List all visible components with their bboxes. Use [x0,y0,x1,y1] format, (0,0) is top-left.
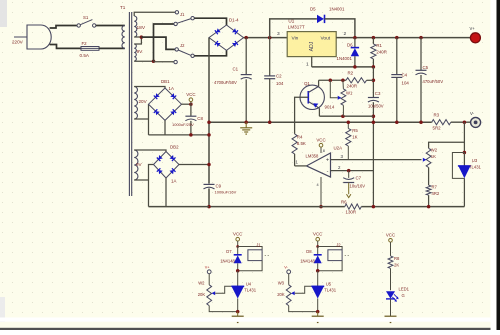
svg-text:1A: 1A [169,86,174,91]
wire S1 to T1 primary [96,25,125,27]
svg-text:104: 104 [276,81,284,86]
bridge D1-4 diode T-L [216,28,220,32]
emitter rail A [319,115,373,117]
wire D5 to Vout rail [325,19,355,38]
svg-text:1N4148: 1N4148 [300,259,315,264]
junction DB1 rail to vertical [207,133,211,137]
potentiometer W3 20K [288,274,290,285]
svg-text:R3: R3 [434,113,440,118]
screen edge bottom-left [0,297,5,322]
wire J1 common to bridge top [194,18,226,25]
power VCC LED circuit [389,239,393,243]
svg-text:W2: W2 [431,148,438,153]
svg-text:1N4148: 1N4148 [220,259,235,264]
svg-text:V-: V- [470,111,475,116]
wire 20V top to DB1 [134,87,165,89]
bridge D1-4 outline [209,25,244,50]
svg-text:VCC: VCC [186,92,195,97]
junction pin4 [319,205,323,209]
collector rail [319,79,346,81]
capacitor C1 [245,38,247,75]
svg-text:9V: 9V [136,162,143,167]
ground rail [209,121,432,123]
svg-text:Vout: Vout [321,36,331,42]
power VCC main [190,102,192,105]
svg-text:C3: C3 [375,91,381,96]
resistor R5 1K [347,122,349,128]
junction C1 bottom [244,120,248,124]
wire ADJ column down [372,67,374,97]
ADJ rail [312,66,374,68]
junction R2 right [372,79,376,83]
junction gnd rail left [207,120,211,124]
pin 1 output wire [295,165,307,167]
svg-text:LM317T: LM317T [288,24,305,29]
diode D8 1N4148 [317,247,319,255]
svg-text:F2: F2 [82,41,88,46]
svg-text:J1: J1 [256,243,261,248]
wire Q1 base left [295,97,309,134]
wire DB1 left corner down [148,104,150,135]
svg-text:R1: R1 [376,43,382,48]
wire W3 wiper to U5 ref [295,286,312,293]
svg-text:470uF/50V: 470uF/50V [423,79,444,84]
svg-text:VCC: VCC [233,232,242,237]
svg-text:4: 4 [317,183,319,187]
svg-text:Vin: Vin [292,36,299,42]
DB1 minus rail [149,134,210,136]
junction C7 top [347,169,351,173]
svg-text:1000uF/25V: 1000uF/25V [172,122,194,127]
potentiometer W1 [342,80,345,89]
svg-text:C1: C1 [233,67,239,72]
junction ground J2 circuit [316,310,320,314]
svg-text:20V: 20V [139,99,148,104]
power VCC opamp [319,143,323,147]
resistor R2 240R [346,78,367,83]
T1 primary winding [122,26,125,49]
junction D6 top [353,36,357,40]
wire 9V bottom up to J1 throw [154,24,174,61]
pin 1 wire [311,57,313,67]
wire DB1 bottom corner down [164,120,166,134]
svg-text:R8: R8 [394,256,400,261]
pin 2 wire [331,170,374,172]
wire tap between windings [134,37,141,44]
wire 9V bottom to DB2 left [134,179,148,181]
junction C2 bottom [268,120,272,124]
svg-text:20K: 20K [277,292,285,297]
junction W2 branch [463,120,467,124]
terminal sense J2 circuit [287,270,291,274]
svg-text:+: + [326,157,329,163]
LED LED1 [390,268,392,290]
junction R5 top [347,120,351,124]
junction relay top [236,245,239,248]
bridge DB2 diode B-L [159,170,163,174]
svg-text:2: 2 [344,31,347,37]
wire W2 bottom to R7 [428,168,430,186]
potentiometer W2 20K [208,274,210,285]
diode D6 1N4001 [354,38,356,48]
svg-text:8.5K: 8.5K [297,141,306,146]
junction R1 top [372,36,376,40]
Vout rail [336,37,470,39]
ground arrow C7 [347,194,351,197]
svg-text:4700uF/50V: 4700uF/50V [214,80,237,85]
svg-text:U3: U3 [472,158,478,163]
svg-text:104: 104 [402,81,410,86]
junction relay bottom [236,269,240,273]
wire J2 common to bridge bottom [194,50,226,55]
svg-text:1K: 1K [352,135,357,140]
svg-text:20K: 20K [198,292,206,297]
capacitor C7 10u/16V [348,171,350,178]
diode D5 1N4001 [317,15,324,23]
wire bottom rail left end [149,206,210,208]
bottom rail [209,206,345,208]
svg-text:V+: V+ [470,26,476,31]
wire W2 top branch [429,142,465,148]
svg-text:0.5A: 0.5A [80,53,90,58]
wire tap to J2 throw [141,37,175,49]
wire 18V top to J1 throw [134,12,175,16]
wire W3 bottom [289,306,318,312]
op-amp U2A LM358 [307,153,331,177]
relay J1 [238,247,262,250]
junction bottom rail left [207,205,211,209]
wire DB2 plus right [179,164,209,166]
wire 9V top to DB2 [134,150,166,152]
T1 secondary winding 9V [134,44,136,61]
junction tap [140,35,144,39]
pin 3 wire [331,159,422,161]
bridge DB2 diode T-R [170,155,174,159]
svg-text:W2: W2 [198,280,205,285]
svg-text:1A: 1A [171,179,176,184]
svg-text:3: 3 [277,31,280,37]
bridge D1-4 diode T-R [232,28,236,32]
pin 4 wire [320,177,322,207]
T1 secondary winding 18V [134,16,137,37]
svg-text:4R2: 4R2 [432,191,440,196]
shunt reference U5 TL431 [317,271,319,287]
power VCC J1 circuit [236,237,240,241]
switch J2 [175,48,178,51]
capacitor C8 1000uF/25V [190,104,192,116]
regulator U1 LM317T [287,32,336,57]
svg-text:1: 1 [306,62,309,68]
T1 secondary winding 9V lower [134,150,138,180]
wire W2 bottom [209,306,238,312]
screen edge top-left [0,0,7,27]
junction W1 bottom [341,114,345,118]
svg-text:C8: C8 [197,116,203,121]
svg-text:130R: 130R [346,210,357,215]
capacitor C3 10u/50V [368,97,379,99]
ground J2 circuit [317,312,319,317]
ground J1 circuit [237,312,239,317]
wire Q1 emitter down [318,108,320,116]
svg-text:C4: C4 [402,73,408,78]
junction C5 top [419,36,423,40]
terminal sense J1 circuit [207,270,211,274]
capacitor C5 470uF/50V [420,38,422,70]
svg-text:ADJ: ADJ [309,41,315,51]
junction ground J1 circuit [236,310,240,314]
bridge D1-4 diode B-R [232,43,236,47]
junction wiper [329,79,333,83]
resistor R4 8.5K [292,134,297,154]
node 220V input wire [14,36,27,38]
svg-text:8: 8 [323,149,325,153]
junction U3 ref [463,151,467,155]
bridge DB2 diode T-L [159,155,163,159]
svg-text:J1: J1 [180,12,185,17]
wire 9V bottom [134,60,153,62]
terminal V- [471,117,481,127]
resistor R3 5R2 [432,120,451,125]
bridge DB1 diode B-R [170,111,174,115]
svg-text:C9: C9 [216,184,222,189]
T1 secondary winding 20V [134,87,137,120]
svg-text:240R: 240R [347,84,358,89]
transistor Q1 9014 [300,85,324,109]
svg-text:D1-4: D1-4 [229,18,239,23]
diode D7 1N4148 [237,247,239,255]
svg-text:J2: J2 [336,243,341,248]
svg-text:1000uF/16V: 1000uF/16V [215,190,237,195]
bridge DB1 outline [149,88,182,120]
svg-text:240R: 240R [376,50,387,55]
svg-text:DB1: DB1 [161,79,170,84]
svg-text:R7: R7 [432,185,438,190]
svg-text:10u/50V: 10u/50V [368,104,384,109]
wire down to U3 [463,122,465,152]
junction C1 top [244,36,248,40]
junction W1 top [341,79,345,83]
resistor R6 130R [345,204,362,209]
bridge D1-4 diode B-L [216,43,220,47]
junction C8 top [189,102,193,106]
potentiometer W2 1K [426,148,431,167]
svg-text:TL431: TL431 [244,288,257,293]
svg-text:TL431: TL431 [469,165,482,170]
pin 8 wire VCC [320,147,322,153]
svg-text:R5: R5 [352,128,358,133]
svg-text:U4: U4 [246,282,252,287]
svg-text:Q1: Q1 [304,81,310,86]
switch J1 [175,11,178,14]
svg-text:2K: 2K [394,263,399,268]
wire 9V bottom to J2 throw [154,61,174,63]
resistor R1 240R [372,38,374,44]
svg-text:C2: C2 [276,74,282,79]
wire DB2 left corner down [149,165,154,207]
svg-text:18V: 18V [137,25,146,31]
svg-text:U2A: U2A [334,146,343,151]
svg-text:VCC: VCC [313,232,322,237]
capacitor C4 104 [396,38,398,75]
terminal V+ [470,33,480,43]
junction C4 bottom [395,120,399,124]
wire DB1 plus to C8 [182,103,191,105]
svg-text:R6: R6 [341,200,347,205]
junction R1 bottom [372,65,376,69]
wire bridge plus to Vin rail [244,37,288,39]
svg-text:1N4001: 1N4001 [337,56,353,61]
wire bridge minus long vertical [208,38,210,184]
svg-text:R2: R2 [348,71,354,76]
svg-text:U5: U5 [326,282,332,287]
wire DB2 bottom corner down [165,178,167,207]
capacitor C9 1000uF/16V [204,183,215,185]
svg-text:5R2: 5R2 [433,126,442,131]
junction D6 bottom [353,65,357,69]
wire fuse to T1 primary [99,47,125,49]
wire D5 branch [270,19,317,38]
svg-text:W1: W1 [346,91,353,96]
svg-text:220V: 220V [12,40,24,45]
bridge DB1 diode T-L [156,93,160,97]
svg-text:VCC: VCC [316,138,325,143]
switch S1 [77,24,80,27]
junction relay bottom [316,269,320,273]
ground symbol main [245,122,247,127]
shunt reference U4 TL431 [237,271,239,287]
svg-text:1K: 1K [431,154,436,159]
bridge DB1 diode B-L [156,111,160,115]
svg-text:D7: D7 [226,249,232,254]
svg-text:T1: T1 [120,5,126,10]
junction R7 bottom [427,205,431,209]
fuse F2 [81,47,99,51]
junction C5 bottom [419,120,423,124]
svg-text:S1: S1 [83,15,89,20]
ground LED circuit [390,299,392,316]
screen edge bottom [0,318,496,322]
bridge DB2 outline [154,152,180,179]
wire W2 wiper to U4 ref [215,286,231,293]
junction C3 rail B [372,120,376,124]
junction C3 rail A [372,114,376,118]
svg-text:LM358: LM358 [306,154,319,159]
svg-text:D5: D5 [310,7,316,12]
svg-text:R4: R4 [297,135,303,140]
resistor R7 4R2 [426,185,431,195]
capacitor C2 [269,38,271,76]
junction DB2 plus [207,163,211,167]
resistor R8 2K [388,256,393,269]
screen edge right [491,0,497,330]
svg-text:-: - [327,169,329,175]
wire plug to fuse [50,45,81,49]
svg-text:VCC: VCC [386,233,395,238]
junction 9V bottom [152,60,156,64]
svg-text:DB2: DB2 [170,145,179,150]
wire 20V bottom to DB1 left [134,118,148,120]
svg-text:TL431: TL431 [324,288,337,293]
svg-text:C7: C7 [356,176,362,181]
svg-text:10u/16V: 10u/16V [350,184,366,189]
power VCC J2 circuit [316,237,320,241]
svg-text:9V: 9V [137,49,144,55]
svg-text:J2: J2 [180,43,185,48]
svg-text:LED1: LED1 [399,287,410,292]
svg-text:D8: D8 [306,249,312,254]
svg-text:W3: W3 [278,280,285,285]
svg-text:D6: D6 [347,42,353,47]
junction C4 top [395,36,399,40]
bridge DB2 diode B-R [170,170,174,174]
junction R6 right [372,205,376,209]
junction C2 top [268,36,272,40]
svg-text:1N4001: 1N4001 [329,7,345,12]
relay J2 [318,247,342,250]
svg-text:G: G [402,293,405,298]
plug P1 [27,25,51,49]
wire plug to S1 [50,26,77,29]
svg-text:9014: 9014 [325,105,335,110]
shunt reference U3 TL431 [463,153,465,166]
wire Q1 collector up [318,80,320,86]
junction relay top [316,245,319,248]
svg-text:C5: C5 [423,65,429,70]
bridge DB1 diode T-R [170,93,174,97]
svg-text:V+: V+ [205,266,211,270]
junction C8 bottom [189,133,193,137]
